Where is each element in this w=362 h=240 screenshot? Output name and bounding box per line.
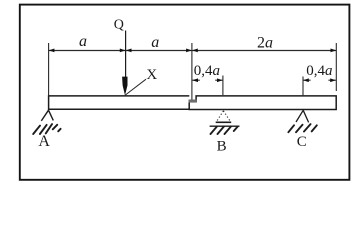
support B hatching	[211, 126, 238, 134]
support B triangle	[216, 111, 230, 122]
force Q arrowhead	[122, 77, 127, 96]
svg-text:A: A	[38, 133, 50, 150]
dimension arrow left end	[49, 49, 55, 53]
dimension 0,4a right arrows	[303, 79, 311, 81]
leader line X	[125, 79, 146, 95]
support A pin legs	[41, 110, 53, 121]
extension tick support B	[222, 76, 224, 96]
beam left segment	[49, 96, 190, 109]
extension tick support C	[302, 77, 304, 96]
svg-text:B: B	[217, 138, 227, 154]
support C hatching	[288, 124, 316, 132]
beam right segment	[189, 96, 336, 110]
svg-text:a: a	[151, 34, 159, 51]
support A hatching	[33, 124, 60, 134]
dimension arrows at hinge	[186, 49, 192, 53]
support B ground line	[210, 125, 240, 127]
svg-text:Q: Q	[114, 17, 124, 32]
dimension line	[49, 50, 337, 52]
extension line hinge	[191, 43, 193, 100]
svg-text:a: a	[79, 33, 87, 50]
dimension 0,4a left arrows	[192, 79, 200, 81]
dimension arrow right end	[331, 49, 337, 53]
svg-text:0,4a: 0,4a	[194, 63, 220, 79]
svg-text:C: C	[297, 134, 307, 150]
svg-text:2a: 2a	[257, 34, 273, 51]
svg-text:X: X	[146, 67, 157, 83]
extension line left end	[48, 43, 50, 96]
extension line right end	[335, 43, 337, 91]
force Q line	[125, 31, 127, 78]
hinge step joint	[189, 100, 197, 103]
support C pin legs	[296, 110, 309, 122]
svg-text:0,4a: 0,4a	[306, 63, 332, 79]
dimension arrows at force line	[120, 49, 126, 53]
